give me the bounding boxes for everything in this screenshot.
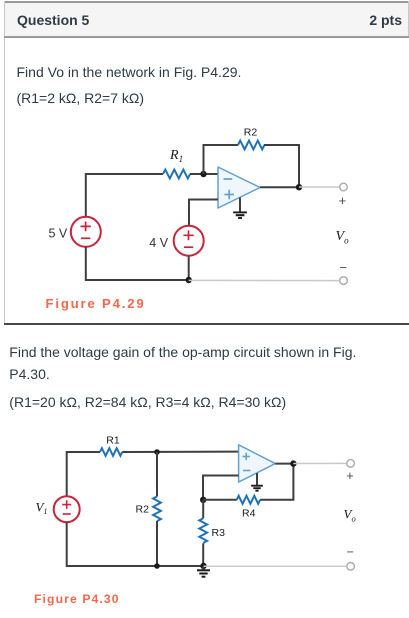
wire: left rail top (V1 to R1) [67, 452, 100, 496]
label - at bottom terminal [339, 260, 347, 275]
label R1 (italic serif) [169, 148, 183, 164]
wire: 4V source bottom to bottom node [188, 256, 190, 280]
terminal: Vo + (open circle) [347, 460, 355, 468]
node: R1/R2 top junction [154, 449, 160, 455]
svg-text:−: − [347, 545, 354, 559]
figure caption Figure P4.30 [34, 592, 120, 606]
4V source plus sign [183, 230, 193, 240]
wire: R2 branch upper [156, 452, 158, 497]
node: bottom junction [186, 277, 192, 283]
resistor R3 zigzag (vertical) [199, 518, 207, 543]
label V1 (italic serif) [36, 500, 48, 517]
wire: node to R4 [203, 499, 237, 501]
svg-text:R1: R1 [106, 435, 120, 447]
wire: 5V source bottom to bottom rail [86, 247, 189, 280]
node: ground junction on bottom rail [200, 563, 206, 569]
terminal: Vo + (open circle) [340, 183, 348, 191]
wire: feedback up-left leg [204, 145, 239, 174]
node: output junction [290, 460, 296, 466]
question card top border [4, 1, 409, 3]
ground (op-amp reference) [233, 198, 247, 219]
question 6 text line 2 [9, 366, 49, 382]
wire: V1 bottom / bottom rail to ground node [67, 522, 204, 566]
label - at bottom terminal [347, 545, 354, 559]
node: inverting input junction [200, 171, 206, 177]
figure caption Figure P4.29 [46, 296, 146, 311]
label 4 V [149, 236, 168, 250]
resistor R2 zigzag (vertical) [153, 497, 161, 522]
op-amp plus input sign [224, 190, 234, 200]
label R2 [136, 504, 150, 516]
svg-text:+: + [346, 469, 353, 483]
node: R3/R4 junction [200, 497, 206, 503]
op-amp U2 triangle [239, 445, 276, 482]
header title "Question 5" [17, 12, 89, 28]
ground symbol [197, 566, 210, 577]
terminal: Vo - (open circle) [347, 563, 355, 571]
op-amp plus input sign [243, 453, 251, 460]
label R1 [106, 435, 120, 447]
resistor R1 zigzag [163, 170, 190, 179]
header points "2 pts" [369, 12, 402, 28]
question card right border [408, 1, 409, 38]
wire: R3 stub bottom [202, 543, 204, 566]
resistor R4 zigzag [237, 496, 260, 504]
op-amp ground (reference) [251, 473, 263, 491]
svg-text:V1: V1 [36, 500, 48, 517]
question 6 text line 1 [9, 344, 356, 360]
question card left border [4, 1, 5, 324]
wire: output node to top terminal (light) [299, 186, 340, 188]
resistor R1 zigzag [100, 448, 122, 456]
op-amp minus input sign [243, 470, 251, 472]
wire: 5V source top to R1 (left rail + top horizontal to op-amp inverting input) [86, 174, 163, 217]
op-amp U1 triangle [218, 167, 260, 208]
wire: op-amp noninverting input from 4V source [189, 200, 218, 226]
voltage source V1 circle [54, 496, 80, 522]
wire: R3 stub top [202, 500, 204, 519]
question 6 text line 3 [9, 394, 286, 410]
label R3 [212, 527, 226, 539]
5V source plus sign [81, 222, 91, 232]
question header background [5, 3, 408, 36]
wire: op-amp inverting input to feedback node [203, 476, 239, 501]
wire: ground node to bottom terminal (light) [204, 565, 347, 567]
4V source minus sign [184, 246, 193, 248]
label Vo (italic serif) [336, 229, 350, 246]
label + at top terminal [346, 469, 353, 483]
op-amp minus input sign [224, 178, 233, 180]
question 5 text line 1 [17, 64, 242, 80]
wire: op-amp output to output node [260, 186, 299, 188]
question 5 text line 2 [17, 90, 145, 106]
label + at top terminal [339, 193, 347, 208]
svg-text:R4: R4 [242, 508, 256, 520]
wire: R4 to output node (feedback right leg) [260, 464, 293, 500]
card bottom border / divider [4, 323, 409, 325]
wire: R1 to op-amp inverting input [190, 173, 218, 175]
wire: op-amp output [275, 463, 293, 465]
resistor R2 zigzag (feedback) [238, 141, 264, 150]
wire: R2 branch lower [156, 521, 158, 566]
label R4 [242, 508, 256, 520]
wire: R1 to op-amp noninverting input [122, 451, 238, 453]
wire: bottom node to bottom terminal (light) [189, 279, 340, 281]
voltage source V1 5V circle [71, 217, 101, 247]
wire: output node to top terminal (light) [293, 462, 346, 464]
label 5 V [49, 227, 68, 241]
question header bottom border [4, 36, 409, 38]
voltage source 4V circle [174, 226, 204, 256]
label Vo (italic serif) [344, 507, 356, 524]
terminal: Vo - (open circle) [340, 277, 348, 285]
label R2 [244, 127, 258, 139]
wire: feedback right leg down to output node [264, 145, 299, 187]
node: output junction [296, 184, 302, 190]
svg-text:R2: R2 [136, 504, 150, 516]
5V source minus sign [81, 237, 90, 239]
V1 source minus sign [63, 513, 71, 515]
V1 source plus sign [62, 500, 71, 509]
svg-text:R3: R3 [212, 527, 226, 539]
svg-text:Vo: Vo [344, 507, 356, 524]
node: R2 bottom junction [154, 563, 160, 569]
